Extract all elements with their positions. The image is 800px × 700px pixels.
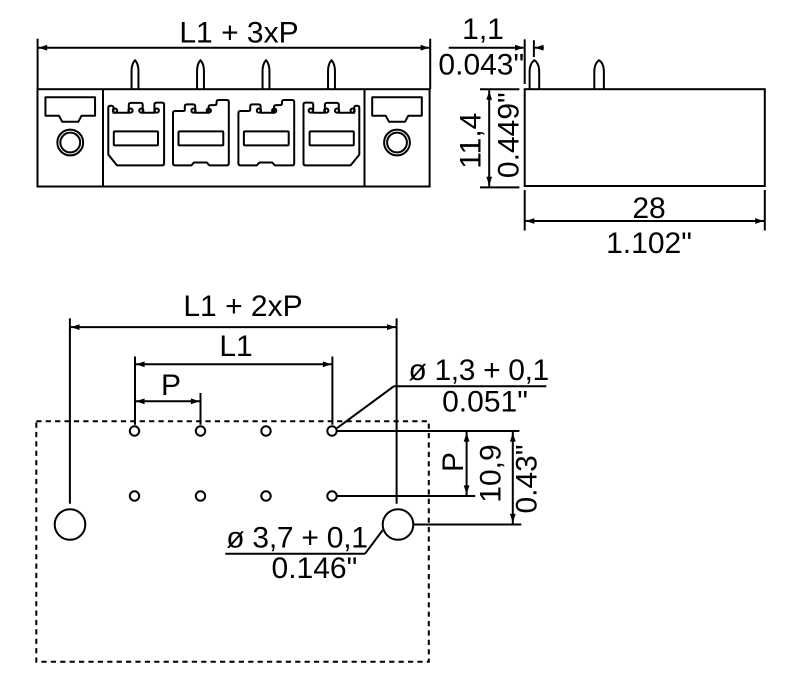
svg-text:0.146": 0.146" xyxy=(272,552,358,585)
svg-text:0.043": 0.043" xyxy=(438,49,524,82)
svg-text:1,1: 1,1 xyxy=(462,13,504,46)
svg-text:1.102": 1.102" xyxy=(606,227,692,260)
svg-text:L1 + 3xP: L1 + 3xP xyxy=(179,16,298,49)
svg-text:ø 1,3 + 0,1: ø 1,3 + 0,1 xyxy=(408,354,548,387)
svg-text:ø 3,7 + 0,1: ø 3,7 + 0,1 xyxy=(226,521,368,554)
svg-text:0.449": 0.449" xyxy=(493,92,526,178)
svg-text:P: P xyxy=(437,452,470,472)
svg-text:L1 + 2xP: L1 + 2xP xyxy=(183,290,302,323)
svg-text:P: P xyxy=(161,369,181,402)
svg-text:0.051": 0.051" xyxy=(442,385,528,418)
svg-text:28: 28 xyxy=(632,192,665,225)
svg-text:L1: L1 xyxy=(219,330,252,363)
svg-text:11,4: 11,4 xyxy=(455,113,488,169)
svg-text:10,9: 10,9 xyxy=(475,444,508,502)
svg-text:0.43": 0.43" xyxy=(510,444,543,513)
